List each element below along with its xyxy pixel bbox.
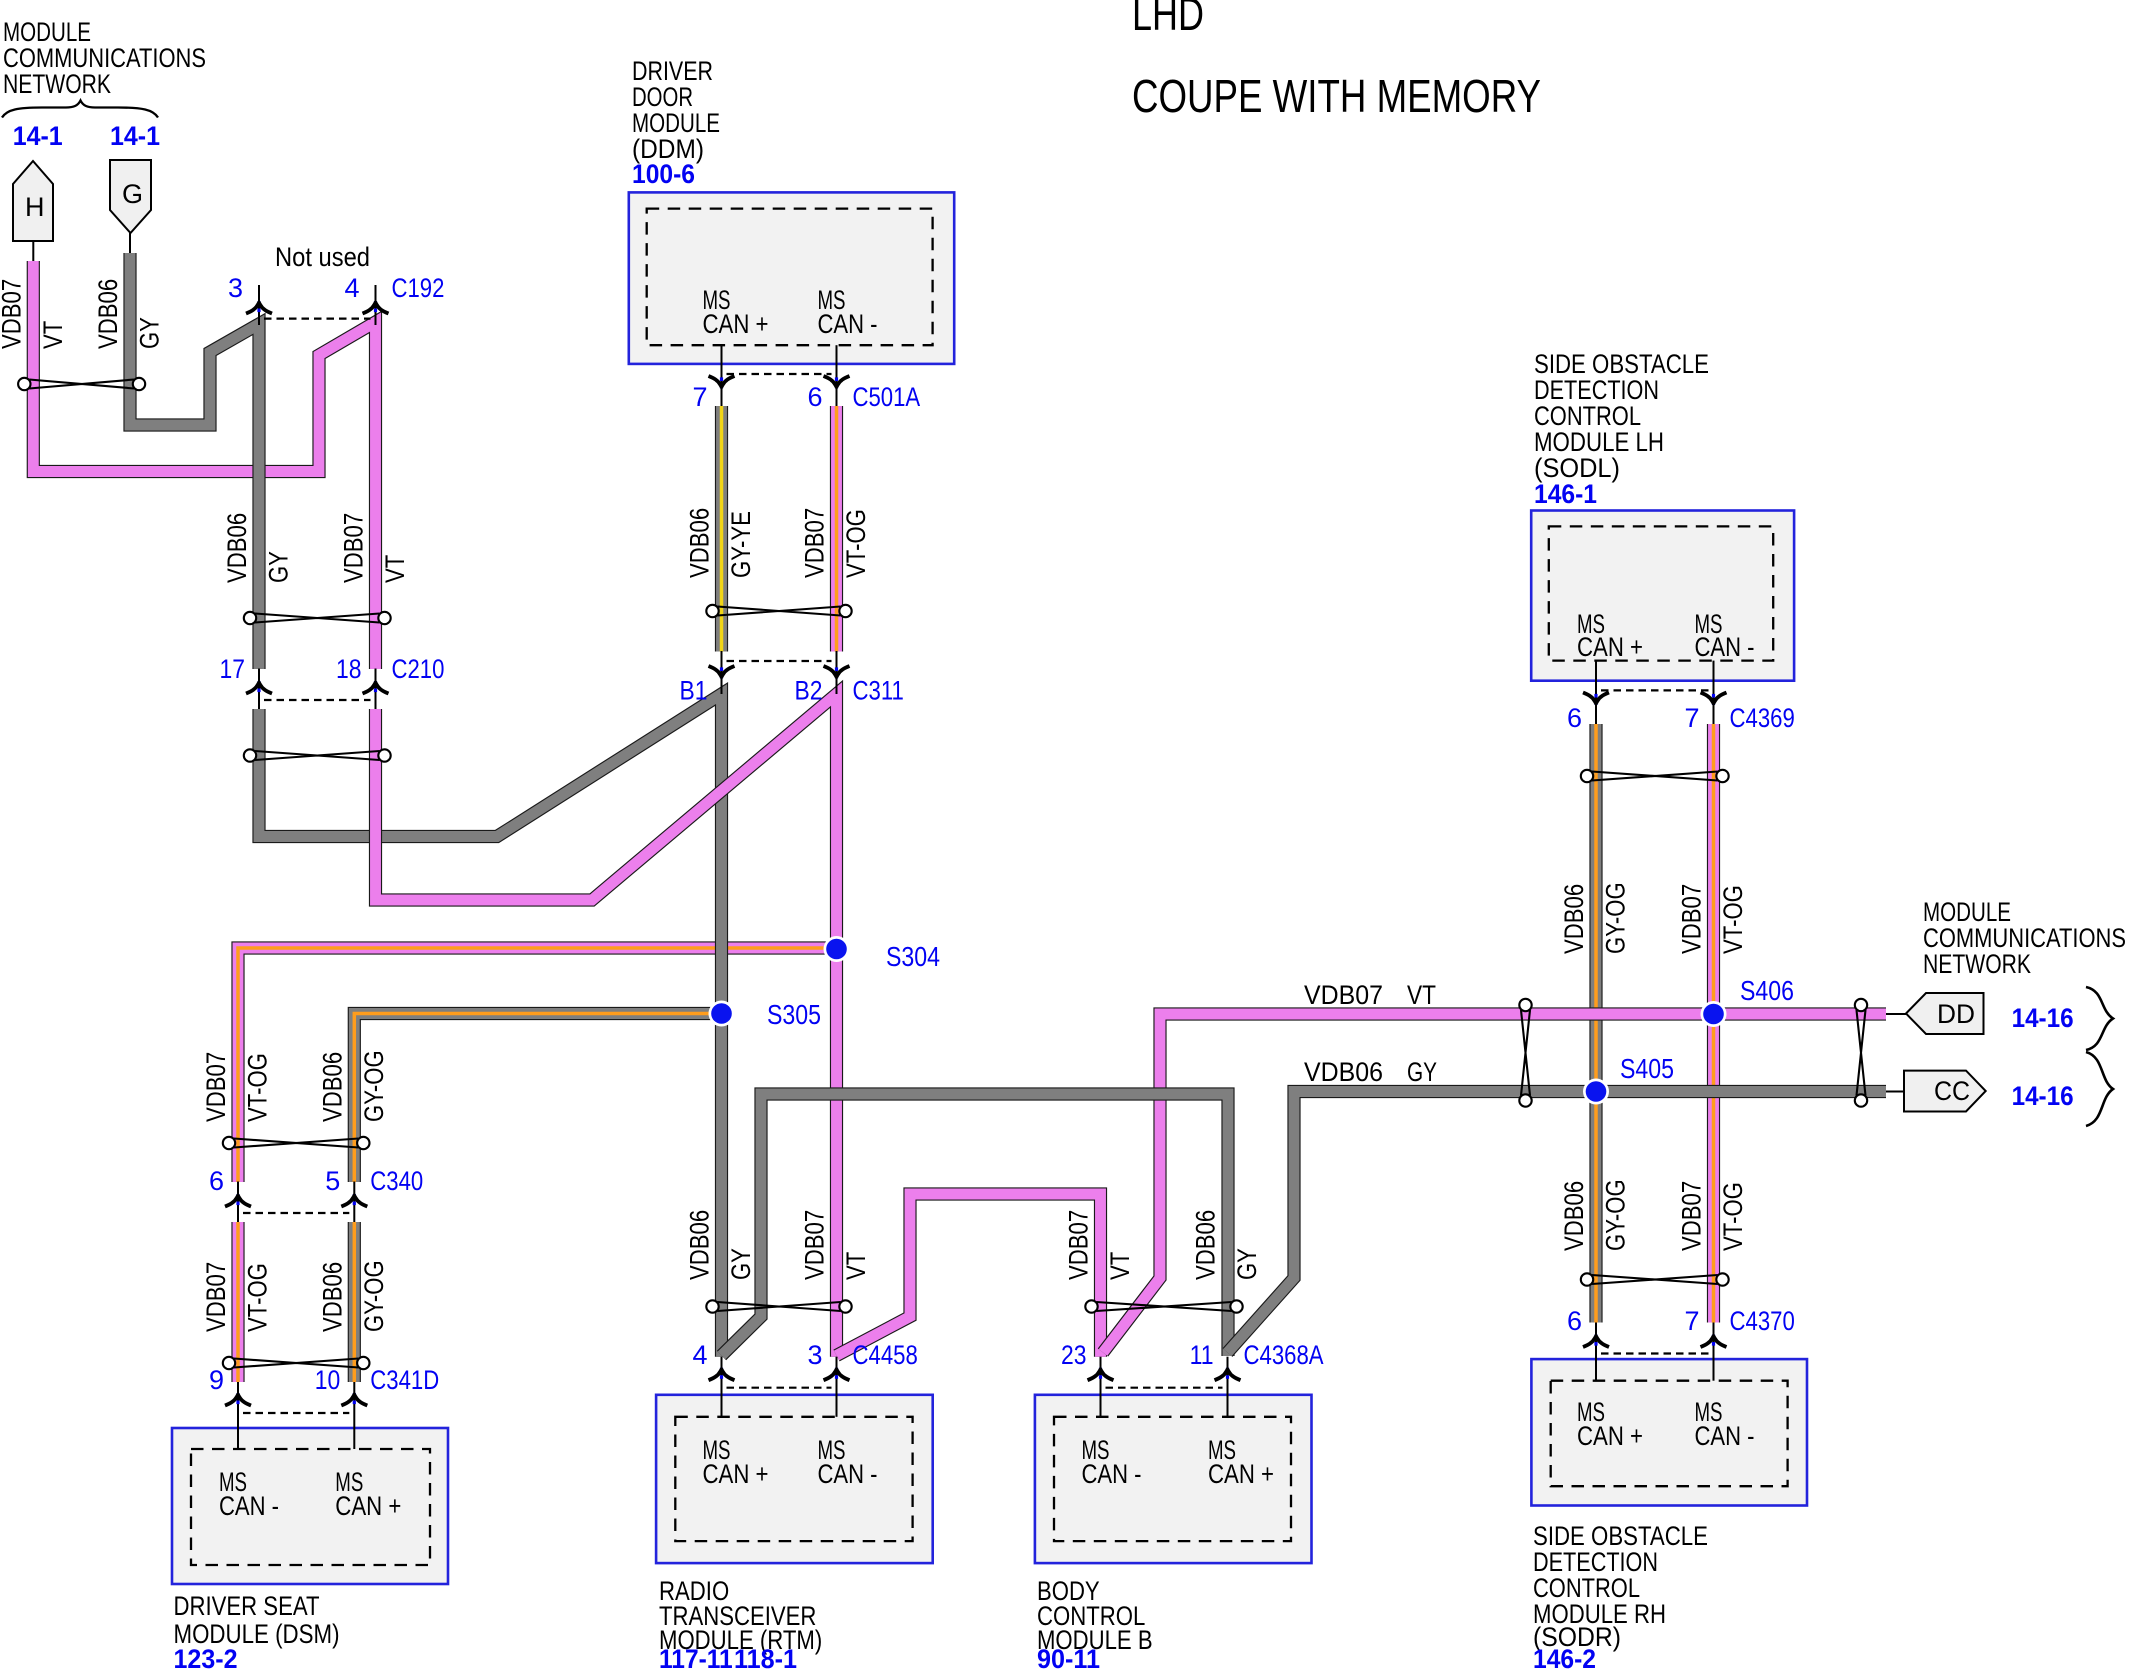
svg-text:VDB07: VDB07	[201, 1052, 231, 1122]
svg-text:C4458: C4458	[853, 1340, 918, 1370]
svg-text:B2: B2	[795, 676, 823, 706]
twisted pair below C210	[244, 749, 391, 761]
svg-text:VT: VT	[1105, 1252, 1135, 1280]
svg-text:C192: C192	[392, 273, 445, 303]
svg-text:S305: S305	[767, 999, 821, 1030]
svg-text:VDB06: VDB06	[93, 279, 123, 349]
svg-text:23: 23	[1061, 1340, 1087, 1370]
svg-text:S405: S405	[1620, 1053, 1674, 1084]
lead to CC	[1886, 1091, 1904, 1093]
module SODR box	[1531, 1359, 1807, 1505]
wire VDB07 VT from C210 pin 18 to C311 B2 to RTM C4458 pin 3	[376, 694, 837, 1357]
svg-text:9: 9	[209, 1365, 224, 1395]
svg-text:4: 4	[692, 1340, 707, 1370]
svg-text:VT: VT	[841, 1252, 871, 1280]
svg-text:90-11: 90-11	[1037, 1644, 1100, 1669]
svg-text:C4370: C4370	[1730, 1306, 1795, 1336]
connector G symbol	[110, 160, 151, 233]
wire VDB07 VT-OG DSM lower pin 9	[231, 1222, 244, 1382]
svg-text:7: 7	[1684, 1306, 1699, 1336]
svg-text:5: 5	[325, 1166, 340, 1196]
svg-text:3: 3	[228, 273, 243, 303]
wire VDB06 GY from RTM pin 4 to BCM pin 11	[722, 1094, 1229, 1356]
wire VDB06 GY trunk from CC through S405 to BCM pin 11	[1228, 1092, 1887, 1353]
connector CC symbol	[1904, 1071, 1986, 1112]
svg-text:NETWORK: NETWORK	[1923, 949, 2031, 979]
svg-text:CAN -: CAN -	[1082, 1459, 1142, 1489]
twisted pair above RTM C4458	[706, 1300, 851, 1312]
svg-text:GY-OG: GY-OG	[359, 1050, 389, 1122]
svg-text:VDB07: VDB07	[339, 513, 369, 583]
wire VDB06 GY-YE from DDM C501A pin 7	[715, 406, 728, 652]
svg-text:GY-OG: GY-OG	[359, 1260, 389, 1332]
twisted pair above BCM C4368A	[1085, 1300, 1242, 1312]
connector DD symbol	[1906, 993, 1984, 1034]
module DDM box	[629, 192, 954, 364]
svg-text:CAN -: CAN -	[1695, 1421, 1755, 1451]
svg-text:GY-OG: GY-OG	[1601, 882, 1631, 954]
svg-text:117-11: 117-11	[659, 1644, 733, 1669]
svg-text:14-16: 14-16	[2012, 1081, 2074, 1111]
svg-text:H: H	[25, 192, 45, 222]
connector C4458 pins 4 and 3	[721, 1357, 723, 1417]
svg-text:VDB06: VDB06	[317, 1262, 347, 1332]
svg-text:VDB07: VDB07	[201, 1262, 231, 1332]
svg-text:3: 3	[807, 1340, 822, 1370]
splice S304	[824, 936, 850, 962]
svg-text:CAN +: CAN +	[1577, 632, 1643, 662]
svg-text:Not used: Not used	[275, 242, 370, 272]
svg-text:VT-OG: VT-OG	[1718, 885, 1748, 954]
connector C192 pins 3 and 4	[258, 285, 260, 325]
svg-text:VDB06: VDB06	[1559, 884, 1589, 954]
module BCM box	[1035, 1395, 1312, 1563]
svg-text:C341D: C341D	[370, 1365, 439, 1395]
pin lead from G	[129, 233, 131, 254]
svg-text:GY: GY	[1407, 1057, 1437, 1087]
twisted pair on trunks left of S405/S406	[1519, 999, 1531, 1107]
svg-text:LHD: LHD	[1132, 0, 1204, 40]
connector C4369 pins 6 and 7	[1595, 661, 1597, 724]
svg-text:123-2: 123-2	[174, 1644, 238, 1669]
twisted pair above SODR C4370	[1581, 1273, 1729, 1285]
svg-text:CAN -: CAN -	[818, 309, 878, 339]
connector C311 pins B1 and B2	[721, 651, 723, 694]
svg-text:GY: GY	[1232, 1248, 1262, 1280]
over-brace	[2, 101, 158, 118]
wire VDB06 GY from G to C192 pin 3	[130, 253, 259, 669]
wire VDB06 GY-OG SODL pin 6 to SODR pin 6	[1589, 724, 1602, 1323]
twisted pair above C341D	[223, 1357, 370, 1369]
svg-text:CC: CC	[1934, 1076, 1970, 1106]
svg-text:GY: GY	[135, 317, 165, 349]
connector C501A pins 7 and 6	[721, 345, 723, 406]
wire VDB07 VT-OG from DDM C501A pin 6	[830, 406, 843, 652]
svg-text:VDB06: VDB06	[685, 1210, 715, 1280]
svg-text:CAN -: CAN -	[1695, 632, 1755, 662]
pin lead from H	[32, 241, 34, 262]
svg-text:10: 10	[315, 1365, 341, 1395]
svg-text:VT-OG: VT-OG	[243, 1053, 273, 1122]
twisted pair below SODL C4369	[1581, 770, 1729, 782]
svg-text:CAN +: CAN +	[335, 1491, 401, 1521]
module DSM box	[172, 1428, 448, 1584]
wire VDB07 VT from RTM pin 3 to BCM pin 23	[837, 1194, 1101, 1357]
twisted pair on trunks right of S405/S406	[1855, 999, 1867, 1107]
svg-text:S406: S406	[1740, 975, 1794, 1006]
svg-text:100-6: 100-6	[632, 159, 695, 189]
svg-text:S304: S304	[886, 941, 940, 972]
svg-text:VDB07: VDB07	[1064, 1210, 1094, 1280]
wire VDB06 GY from C210 pin 17 to C311 B1 to RTM C4458 pin 4	[259, 694, 722, 1357]
svg-text:VDB07: VDB07	[800, 1210, 830, 1280]
svg-text:7: 7	[1684, 703, 1699, 733]
svg-text:C340: C340	[370, 1166, 423, 1196]
connector C210 pins 17 and 18	[258, 669, 260, 710]
svg-text:CAN +: CAN +	[703, 1459, 769, 1489]
twisted pair H/G wires	[18, 378, 145, 390]
svg-text:C4369: C4369	[1730, 703, 1795, 733]
wire VDB07 VT from H to C192 pin 4	[33, 261, 375, 669]
svg-text:18: 18	[336, 654, 362, 684]
svg-text:VDB06: VDB06	[1559, 1181, 1589, 1251]
twisted pair above C340	[223, 1137, 370, 1149]
svg-text:VDB06: VDB06	[685, 508, 715, 578]
svg-text:VDB07: VDB07	[1304, 980, 1383, 1010]
wire VDB06 GY-OG DSM lower pin 10	[348, 1222, 361, 1382]
svg-text:VT-OG: VT-OG	[841, 509, 871, 578]
svg-text:VT: VT	[1407, 980, 1436, 1010]
connector C340 pins 6 and 5	[237, 1182, 239, 1223]
svg-text:17: 17	[220, 654, 246, 684]
brace CC	[2086, 1052, 2113, 1126]
svg-text:C501A: C501A	[853, 382, 921, 412]
svg-text:VDB07: VDB07	[1677, 1181, 1707, 1251]
svg-text:6: 6	[1567, 703, 1582, 733]
svg-text:GY-YE: GY-YE	[726, 511, 756, 578]
svg-text:DRIVER SEAT: DRIVER SEAT	[174, 1591, 320, 1621]
connector C4370 pins 6 and 7	[1595, 1323, 1597, 1381]
svg-text:7: 7	[692, 382, 707, 412]
svg-text:14-16: 14-16	[2012, 1003, 2074, 1033]
wire VDB07 VT-OG from S304 to DSM C340 pin 6	[238, 948, 837, 1182]
twisted pair above C311	[706, 605, 851, 617]
connector C4368A pins 23 and 11	[1100, 1357, 1102, 1417]
svg-text:VDB07: VDB07	[800, 508, 830, 578]
svg-text:DD: DD	[1937, 999, 1975, 1029]
svg-text:CAN +: CAN +	[1577, 1421, 1643, 1451]
svg-text:118-1: 118-1	[734, 1644, 797, 1669]
wire VDB06 GY-OG from S305 to DSM C340 pin 5	[354, 1014, 721, 1183]
wire VDB07 VT trunk from DD through S406 to BCM pin 23	[1103, 1014, 1886, 1353]
splice S406	[1701, 1001, 1727, 1027]
svg-text:11: 11	[1190, 1340, 1214, 1370]
svg-text:CAN +: CAN +	[1208, 1459, 1274, 1489]
svg-text:COUPE WITH MEMORY: COUPE WITH MEMORY	[1132, 70, 1541, 122]
svg-text:VDB07: VDB07	[0, 279, 26, 349]
svg-text:VT: VT	[38, 321, 68, 349]
svg-text:VT-OG: VT-OG	[243, 1263, 273, 1332]
svg-text:CAN +: CAN +	[703, 309, 769, 339]
svg-text:B1: B1	[680, 676, 708, 706]
svg-text:CAN -: CAN -	[219, 1491, 279, 1521]
svg-text:4: 4	[344, 273, 359, 303]
svg-text:VDB07: VDB07	[1677, 884, 1707, 954]
svg-text:6: 6	[807, 382, 822, 412]
svg-text:CAN -: CAN -	[818, 1459, 878, 1489]
svg-text:GY: GY	[264, 551, 294, 583]
lead to DD	[1886, 1013, 1906, 1015]
svg-text:G: G	[122, 179, 143, 209]
svg-text:14-1: 14-1	[110, 121, 160, 151]
svg-text:GY-OG: GY-OG	[1601, 1179, 1631, 1251]
svg-text:VDB06: VDB06	[317, 1052, 347, 1122]
module RTM box	[656, 1395, 933, 1563]
wire VDB07 VT-OG SODL pin 7 to SODR pin 7	[1707, 724, 1720, 1323]
svg-text:GY: GY	[726, 1248, 756, 1280]
svg-text:VT: VT	[380, 555, 410, 583]
module SODL box	[1531, 511, 1794, 681]
svg-text:VDB06: VDB06	[1191, 1210, 1221, 1280]
svg-text:C210: C210	[392, 654, 445, 684]
svg-text:6: 6	[209, 1166, 224, 1196]
svg-text:VDB06: VDB06	[1304, 1057, 1383, 1087]
svg-text:146-2: 146-2	[1533, 1644, 1596, 1669]
brace DD	[2086, 987, 2113, 1050]
svg-text:146-1: 146-1	[1534, 479, 1597, 509]
svg-text:6: 6	[1567, 1306, 1582, 1336]
splice S305	[709, 1001, 735, 1027]
svg-text:C4368A: C4368A	[1244, 1340, 1324, 1370]
svg-text:C311: C311	[853, 676, 904, 706]
svg-text:VDB06: VDB06	[222, 513, 252, 583]
svg-text:14-1: 14-1	[13, 121, 63, 151]
svg-text:NETWORK: NETWORK	[3, 69, 111, 99]
svg-text:VT-OG: VT-OG	[1718, 1182, 1748, 1251]
splice S405	[1583, 1079, 1609, 1105]
twisted pair above C210	[244, 612, 391, 624]
connector C341D pins 9 and 10	[237, 1382, 239, 1449]
connector H symbol	[13, 161, 53, 241]
